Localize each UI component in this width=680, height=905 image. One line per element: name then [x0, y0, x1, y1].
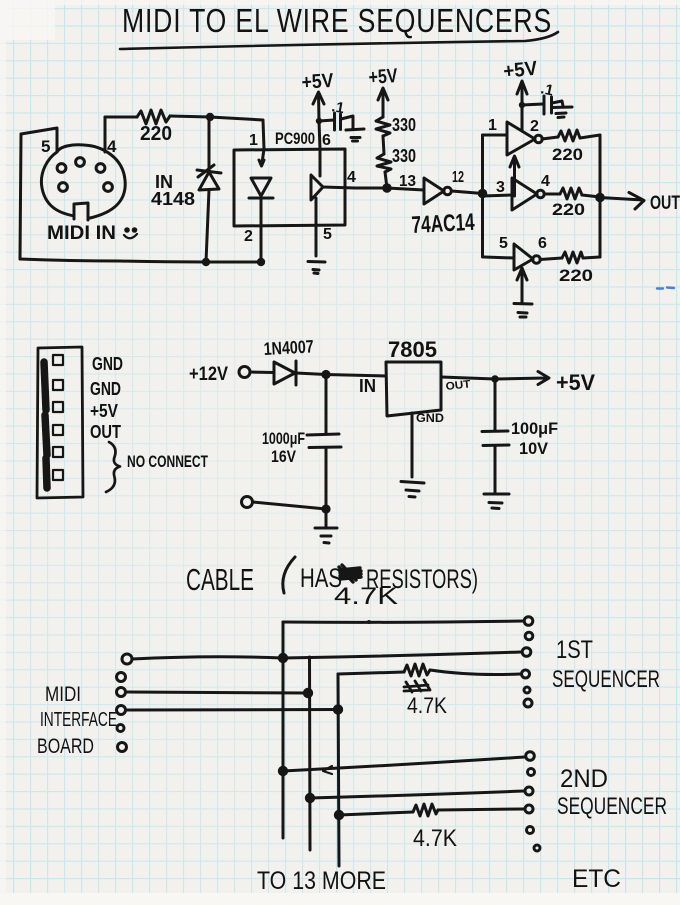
svg-text:GND: GND — [90, 379, 121, 399]
board pin 6 circle — [118, 743, 127, 752]
ground (7805) — [401, 482, 424, 498]
wire to inverter2 input — [483, 195, 513, 196]
svg-text:4: 4 — [347, 169, 356, 186]
wire pin5 to ground — [315, 198, 318, 256]
inverter bubble — [533, 256, 541, 264]
wire pin6 from +5V rail — [319, 93, 321, 176]
wire output rail (right) — [599, 135, 602, 257]
resistor 330 lower — [377, 154, 391, 172]
regulator 7805 box — [386, 362, 441, 416]
node junction diode bottom — [202, 258, 210, 266]
svg-text:4148: 4148 — [151, 189, 195, 209]
svg-text:2: 2 — [530, 118, 539, 135]
wire board pin3 to bus B — [126, 692, 308, 693]
node junction out rail — [595, 193, 605, 203]
wire to out rail — [582, 195, 600, 197]
wire to diode — [250, 371, 273, 375]
node junction signal — [382, 183, 392, 193]
wire to out rail — [580, 135, 600, 138]
seq1 pin1 circle — [524, 617, 533, 626]
DIN pin hole top — [76, 158, 85, 167]
svg-text:IN: IN — [359, 376, 376, 396]
svg-text:GND: GND — [416, 411, 444, 425]
wire board pin1 to bus A — [132, 657, 283, 659]
svg-text:1: 1 — [249, 132, 258, 149]
svg-text:4.7K: 4.7K — [413, 825, 457, 852]
header heavy marks — [44, 362, 47, 488]
svg-text:3: 3 — [496, 179, 505, 196]
resistor 220 (out2) — [560, 188, 582, 199]
resistor 330 upper — [376, 117, 390, 136]
wire out inverter3 — [540, 258, 562, 260]
svg-text:1ST: 1ST — [556, 636, 593, 664]
capacitor .1 (buffer bypass) — [522, 96, 572, 118]
svg-text:CABLE: CABLE — [186, 562, 254, 597]
svg-text:GND: GND — [92, 354, 123, 374]
node junction +5V/cap — [519, 102, 525, 108]
node junction +5V/cap — [316, 118, 322, 124]
svg-text:2: 2 — [244, 228, 253, 245]
wire 7805 OUT — [441, 377, 495, 379]
board pin 4 circle — [117, 706, 126, 715]
seq1 pin3 circle — [522, 648, 531, 657]
svg-text:220: 220 — [552, 145, 583, 164]
wire bus A on to sequencer1 pin3 — [283, 652, 521, 658]
wire 7805 GND down — [411, 413, 414, 477]
seq2 pin6 circle — [534, 845, 540, 851]
brace — [106, 442, 120, 492]
scribbled-out word — [339, 565, 361, 582]
wire down to ground — [325, 509, 328, 526]
supply arrow under inverter1 — [510, 156, 519, 196]
node junction ground — [321, 504, 330, 513]
svg-text:1000μF: 1000μF — [262, 429, 305, 448]
scribbled-out value — [404, 680, 430, 692]
svg-text:+12V: +12V — [189, 364, 228, 385]
svg-text:4.7K: 4.7K — [407, 693, 447, 718]
diode 1N4148 — [197, 117, 221, 262]
wire out inverter2 — [544, 193, 560, 196]
svg-text:SEQUENCER: SEQUENCER — [557, 793, 667, 820]
svg-text:330: 330 — [392, 146, 416, 166]
node junction input rail — [478, 189, 488, 199]
svg-text:74AC14: 74AC14 — [411, 209, 476, 239]
smiley face — [124, 228, 137, 238]
+5V supply arrow (PC900) — [313, 92, 324, 104]
return terminal circle — [242, 497, 253, 508]
board pin 3 circle — [117, 688, 126, 697]
svg-text:1: 1 — [488, 117, 497, 134]
svg-text:MIDI TO EL WIRE SEQUENCERS: MIDI TO EL WIRE SEQUENCERS — [122, 2, 552, 39]
inverter bubble — [535, 135, 543, 143]
svg-text:1N4007: 1N4007 — [263, 336, 314, 359]
ground (100uF) — [484, 494, 509, 509]
node junction diode out — [321, 370, 330, 379]
wire resistor to seq1 pin4 — [430, 670, 520, 675]
svg-text:OUT: OUT — [650, 193, 680, 214]
svg-text:4: 4 — [107, 137, 117, 156]
wire bus C to 4.7K to sequencer1 pin4 — [338, 672, 404, 674]
ink mark on wire — [323, 766, 332, 774]
wire bus A top to sequencer1 pin1 — [283, 621, 523, 622]
wire OUT arrow — [600, 193, 644, 210]
wire bus B to sequencer2 pin3 — [310, 791, 524, 798]
svg-text:5: 5 — [323, 226, 332, 243]
svg-text:7805: 7805 — [388, 337, 437, 362]
resistor 220 (out3) — [562, 252, 583, 263]
wire out inverter1 — [542, 137, 558, 139]
optocoupler PC900 box — [234, 149, 345, 226]
wire resistor to seq2 pin4 — [438, 809, 524, 810]
svg-text:4: 4 — [541, 173, 550, 190]
svg-text:BOARD: BOARD — [37, 735, 94, 758]
svg-text:4.7K: 4.7K — [334, 583, 398, 610]
+5V supply arrow (buffers) — [517, 81, 527, 94]
capacitor .1 (PC900 bypass) — [319, 113, 364, 141]
seq2 pin2 circle — [528, 769, 535, 776]
wire PC900 out to node — [323, 187, 387, 188]
header pin 3 square — [53, 402, 63, 412]
ground (PC900 pin5) — [308, 262, 325, 274]
inverter 74AC14 U1 — [424, 178, 444, 204]
seq2 pin3 circle — [525, 787, 533, 795]
svg-text:16V: 16V — [271, 447, 297, 466]
diode 1N4007 — [274, 361, 326, 385]
node junction bus C — [333, 704, 343, 714]
wire +5V down to inverter1 — [521, 82, 524, 130]
svg-text:100μF: 100μF — [511, 419, 558, 438]
connector notch — [74, 203, 88, 220]
svg-text:+5V: +5V — [301, 70, 335, 94]
+5V supply arrow (330 pullup) — [378, 88, 388, 100]
svg-text:12: 12 — [452, 169, 464, 186]
wire bus A to sequencer2 pin1 — [283, 757, 525, 771]
header pin 6 square — [53, 470, 63, 480]
wire resistor to node — [170, 116, 210, 117]
svg-text:10V: 10V — [519, 439, 549, 458]
PC900 internal LED — [249, 149, 273, 262]
MIDI DIN connector J1 outer circle — [41, 145, 125, 218]
title underline — [120, 32, 558, 49]
bus wire B vertical — [308, 657, 312, 850]
wire board pin4 to bus C — [126, 708, 338, 712]
wire bus C to 4.7K (seq2) — [339, 812, 413, 815]
PC900 internal buffer triangle — [311, 175, 323, 200]
wire 74AC14 out to rail — [452, 191, 483, 194]
wire bottom ground rail — [20, 259, 262, 262]
svg-text:+5V: +5V — [90, 401, 118, 421]
resistor 4.7K (seq2) — [413, 804, 438, 816]
seq2 pin1 circle — [526, 752, 535, 761]
svg-text:220: 220 — [140, 123, 172, 145]
svg-text:+5V: +5V — [556, 370, 595, 395]
paren ( — [283, 557, 295, 593]
svg-text:TO 13 MORE: TO 13 MORE — [257, 867, 386, 895]
wire input rail (left) — [481, 135, 484, 257]
svg-text:SEQUENCER: SEQUENCER — [552, 666, 660, 693]
inverter U1c — [514, 244, 533, 270]
svg-text:5: 5 — [499, 235, 508, 252]
svg-text:MIDI: MIDI — [45, 683, 81, 706]
capacitor 100uF 10V — [482, 379, 509, 492]
svg-text:INTERFACE: INTERFACE — [40, 709, 117, 731]
capacitor 1000uF 16V — [307, 375, 341, 510]
input terminal circle — [239, 367, 250, 378]
svg-text:+5V: +5V — [502, 57, 539, 82]
inverter U1b — [512, 178, 537, 210]
svg-text:330: 330 — [392, 115, 416, 135]
ground (input) — [315, 528, 337, 543]
node junction +5V out — [491, 375, 499, 383]
DIN pin hole upper-left — [57, 164, 66, 173]
wire between 330s — [383, 136, 384, 154]
wire +5V arrow — [495, 372, 549, 385]
blue pen dashes — [657, 288, 674, 289]
svg-text:6: 6 — [322, 132, 331, 149]
wire node to 74AC14 — [387, 188, 424, 190]
node junction at diode top — [206, 113, 214, 121]
node junction bus B lower — [305, 793, 315, 803]
ink dot on wire — [367, 620, 371, 624]
bus wire A vertical — [282, 622, 285, 838]
svg-text:PC900: PC900 — [275, 129, 315, 148]
wire to 7805 IN — [326, 375, 386, 377]
wire 330 to node — [385, 172, 387, 188]
DIN pin hole lower-right — [104, 183, 113, 192]
seq2 pin5 circle — [527, 827, 534, 834]
inverter U1a — [507, 122, 535, 155]
node junction bus A lower — [278, 766, 288, 776]
wire top rail to resistor — [105, 116, 137, 119]
node junction pin2 bottom — [257, 258, 265, 266]
resistor 4.7K (seq1) — [404, 664, 430, 676]
wire +5V to resistor — [382, 89, 385, 117]
svg-text:OUT: OUT — [90, 422, 121, 442]
svg-text:ETC: ETC — [572, 865, 621, 893]
DIN pin hole lower-left — [59, 183, 68, 192]
header pin 1 square — [53, 355, 63, 365]
board pin 1 circle — [122, 654, 132, 664]
resistor 220 (out1) — [558, 130, 580, 141]
header connector outline — [37, 347, 83, 498]
svg-text:+5V: +5V — [368, 65, 399, 89]
svg-text:NO CONNECT: NO CONNECT — [127, 452, 208, 471]
header pin 2 square — [53, 380, 63, 390]
connector notch erase — [73, 204, 90, 221]
header pin 4 square — [53, 425, 63, 435]
seq2 pin4 circle — [525, 805, 533, 813]
inverter bubble — [444, 187, 452, 195]
resistor 220 (series MIDI) — [137, 110, 170, 124]
node junction bus C lower — [334, 810, 344, 820]
seq1 pin4 circle — [522, 670, 530, 678]
inverter bubble — [537, 190, 545, 198]
svg-text:MIDI IN: MIDI IN — [47, 223, 116, 244]
wire node to PC900 pin1 corner — [210, 117, 264, 149]
wire pin5 tab to box corner — [21, 128, 57, 151]
svg-text:13: 13 — [399, 173, 416, 190]
node junction bus A — [278, 653, 288, 663]
header pin 5 square — [53, 447, 63, 457]
svg-text:2ND: 2ND — [560, 765, 608, 793]
svg-text:220: 220 — [559, 266, 593, 285]
svg-text:6: 6 — [538, 235, 547, 252]
board pin 2 circle — [117, 673, 126, 682]
ground under inverter3 — [514, 268, 532, 317]
DIN pin hole upper-right — [96, 164, 105, 173]
seq1 pin5 circle — [524, 687, 530, 693]
bus wire C vertical — [338, 674, 339, 866]
seq1 pin2 circle — [525, 632, 533, 640]
wire to inverter1 input — [483, 134, 508, 137]
wire to inverter3 input — [484, 257, 514, 258]
svg-text:5: 5 — [41, 137, 50, 156]
wire pin4 tab up — [104, 117, 107, 152]
board pin 5 circle — [117, 725, 124, 732]
node junction bus B — [303, 688, 313, 698]
seq1 pin6 circle — [524, 699, 532, 707]
svg-text:220: 220 — [552, 200, 585, 219]
wire box left edge — [20, 134, 21, 259]
wire to out rail — [583, 257, 600, 258]
wire return to ground node — [253, 502, 326, 509]
